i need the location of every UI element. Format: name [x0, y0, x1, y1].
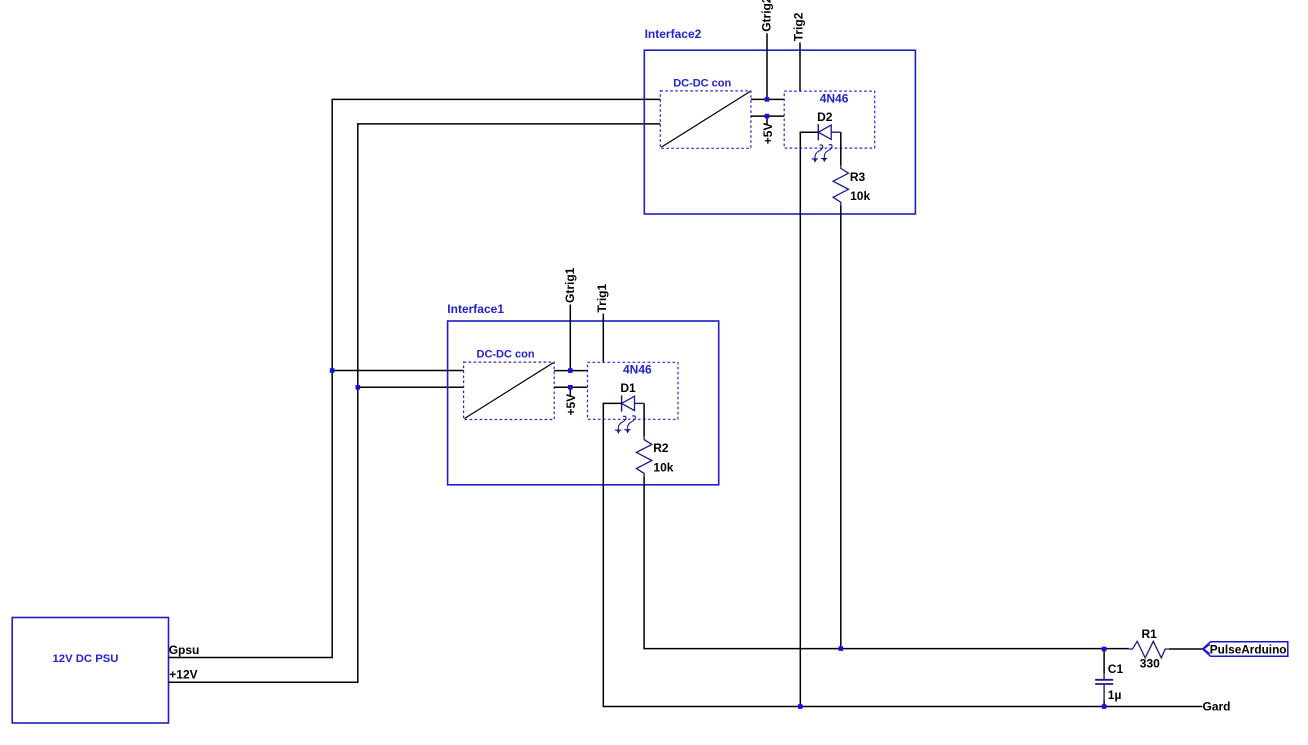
svg-text:10k: 10k [850, 189, 870, 203]
node Gtrig2 label [760, 0, 774, 32]
node +5V label [564, 394, 578, 416]
label D1 [620, 381, 636, 395]
wire DC-DC out lower I2 [751, 115, 784, 117]
LED arrows D1 [615, 416, 635, 434]
wire D1 anode down to Gard rail and rail to Gard [603, 403, 1202, 706]
node +12V label [169, 667, 197, 681]
wire C1 bottom lead [1103, 701, 1105, 707]
wire Trig1 [602, 314, 604, 363]
label R2 [653, 441, 669, 455]
node Gpsu label [169, 643, 200, 657]
label 330 [1140, 656, 1160, 670]
wire D1 cathode to R2 [643, 403, 645, 436]
wire C1 top lead [1103, 649, 1105, 673]
label 10k R3 [850, 189, 870, 203]
svg-text:1µ: 1µ [1108, 688, 1122, 702]
svg-text:Gpsu: Gpsu [169, 643, 200, 657]
LED arrows D2 [812, 145, 832, 163]
label R3 [850, 170, 866, 184]
wire R2 bottom to pulse rail, rail to R1 [644, 476, 1129, 648]
junction pulse rail/R3 [839, 646, 844, 651]
node +5V label I2 [761, 123, 775, 145]
svg-text:4N46: 4N46 [623, 363, 652, 377]
wire branch to Interface1 DC-DC input (upper) [332, 370, 463, 372]
DC-DC diagonal [465, 363, 554, 419]
wire D2 anode down to Gard rail [800, 132, 818, 706]
diode D2 [818, 124, 841, 140]
wire Trig2 [799, 42, 801, 91]
label C1 [1108, 662, 1124, 676]
junction C1 bottom [1102, 704, 1107, 709]
svg-text:+5V: +5V [761, 123, 775, 145]
svg-text:330: 330 [1140, 656, 1160, 670]
junction Gtrig2 [765, 97, 770, 102]
wire DC-DC out lower [554, 386, 587, 388]
DC-DC converter U-I1 dashed box [464, 362, 555, 419]
diode D1 [622, 395, 645, 411]
resistor R3 [833, 165, 848, 205]
label R1 [1142, 627, 1158, 641]
svg-text:Trig2: Trig2 [792, 12, 806, 41]
label Interface2 [645, 27, 702, 41]
wire +12V run: PSU right to vertical riser x=358 up to Interface2 DC-DC input [169, 124, 661, 682]
label 4N46 I2 [820, 91, 849, 105]
svg-text:+5V: +5V [564, 394, 578, 416]
wire DC-DC out upper I2 [751, 98, 784, 100]
node Trig2 label [792, 12, 806, 41]
junction +5V I1 [568, 385, 573, 390]
label 12V DC PSU [53, 653, 119, 665]
svg-text:C1: C1 [1108, 662, 1124, 676]
opto 4N46 U-I2 dashed box [784, 91, 875, 148]
svg-text:Gtrig2: Gtrig2 [760, 0, 774, 32]
svg-text:Trig1: Trig1 [595, 283, 609, 312]
label DC-DC con I2 [673, 77, 731, 89]
svg-text:4N46: 4N46 [820, 91, 849, 105]
node Gtrig1 label [563, 267, 577, 303]
wire +5V stub I2 [766, 116, 768, 125]
svg-text:DC-DC con: DC-DC con [477, 349, 535, 361]
Interface1 box [448, 321, 719, 485]
junction riser2/Interface1 [356, 385, 361, 390]
wire +5V stub [569, 387, 571, 396]
svg-text:D1: D1 [620, 381, 636, 395]
junction +5V I2 [765, 114, 770, 119]
svg-text:+12V: +12V [169, 667, 197, 681]
capacitor C1 [1095, 673, 1113, 701]
svg-text:DC-DC con: DC-DC con [673, 77, 731, 89]
svg-text:Interface2: Interface2 [645, 27, 702, 41]
12V DC PSU box [12, 618, 168, 724]
DC-DC diagonal I2 [661, 91, 750, 147]
junction riser1/Interface1 [330, 368, 335, 373]
svg-text:D2: D2 [817, 110, 833, 124]
wire Gtrig2 [766, 33, 768, 99]
svg-text:R2: R2 [653, 441, 669, 455]
svg-text:Interface1: Interface1 [447, 302, 504, 316]
wire D2 cathode to R3 [840, 132, 842, 165]
label Interface1 [447, 302, 504, 316]
wire R1 to port [1169, 648, 1202, 650]
wire R3 bottom to pulse rail [840, 205, 842, 648]
wire Gpsu run: PSU right to vertical riser x=332 up to Interface2 DC-DC input [169, 99, 661, 657]
resistor R1 [1129, 641, 1169, 658]
label D2 [817, 110, 833, 124]
svg-text:R1: R1 [1142, 627, 1158, 641]
label 1u [1108, 688, 1122, 702]
port PulseArduino [1203, 642, 1288, 657]
junction C1 top [1102, 647, 1107, 652]
Interface2 box [644, 50, 915, 214]
svg-text:Gtrig1: Gtrig1 [563, 267, 577, 303]
wire Gtrig1 [569, 305, 571, 371]
svg-text:10k: 10k [653, 460, 673, 474]
node Trig1 label [595, 283, 609, 312]
junction Gtrig1 [568, 368, 573, 373]
DC-DC converter U-I2 dashed box [660, 91, 751, 148]
resistor R2 [636, 437, 651, 477]
wire DC-DC out upper [554, 370, 587, 372]
svg-text:12V DC PSU: 12V DC PSU [53, 653, 119, 665]
node Gard label [1203, 700, 1231, 714]
svg-text:Gard: Gard [1203, 700, 1231, 714]
label 10k R2 [653, 460, 673, 474]
opto 4N46 U-I1 dashed box [588, 362, 679, 419]
svg-text:PulseArduino: PulseArduino [1210, 642, 1287, 656]
label 4N46 [623, 363, 652, 377]
wire branch to Interface1 DC-DC input (lower) [358, 386, 464, 388]
junction Gard/D2 [798, 704, 803, 709]
svg-text:R3: R3 [850, 170, 866, 184]
label DC-DC con [477, 349, 535, 361]
